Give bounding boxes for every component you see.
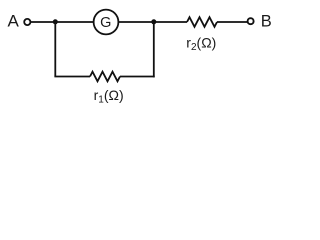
- value label r2 ohms: [186, 34, 216, 52]
- node B label: [261, 13, 272, 31]
- wire galvanometer to resistor r2: [119, 21, 187, 23]
- node A label: [8, 12, 20, 31]
- terminal B: [248, 18, 254, 24]
- value label r1 ohms: [94, 87, 124, 105]
- terminal A: [24, 19, 30, 25]
- resistor R2 zigzag: [187, 17, 217, 27]
- wire left vertical: [54, 22, 56, 77]
- svg-text:r2(Ω): r2(Ω): [186, 34, 216, 52]
- wire bottom left: [54, 76, 90, 78]
- wire bottom right: [120, 76, 155, 78]
- svg-text:A: A: [8, 12, 20, 31]
- wire right vertical: [153, 22, 155, 77]
- wire resistor r2 to terminal B: [217, 21, 247, 23]
- resistor R1 zigzag: [90, 72, 120, 82]
- junction right: [151, 19, 156, 24]
- svg-text:B: B: [261, 13, 272, 31]
- svg-text:r1(Ω): r1(Ω): [94, 87, 124, 105]
- junction left: [53, 19, 58, 24]
- op-amp U1 galvanometer G: [94, 10, 119, 35]
- svg-text:G: G: [100, 15, 111, 31]
- wire A to galvanometer: [31, 21, 94, 23]
